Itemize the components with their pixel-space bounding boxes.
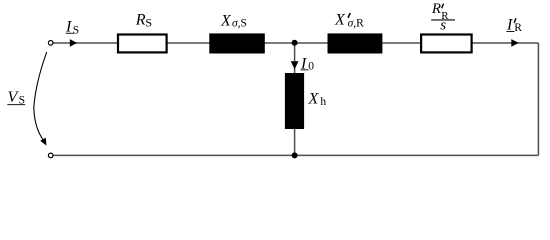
svg-text:R: R	[135, 12, 146, 29]
svg-text:S: S	[73, 25, 79, 37]
svg-text:I: I	[65, 18, 72, 35]
svg-text:σ,R: σ,R	[348, 17, 365, 29]
svg-text:R: R	[514, 22, 522, 34]
svg-text:h: h	[320, 96, 326, 108]
svg-text:I: I	[506, 17, 513, 34]
svg-text:R: R	[431, 1, 441, 17]
svg-text:X: X	[220, 13, 232, 30]
svg-text:0: 0	[308, 61, 314, 73]
svg-text:X: X	[308, 90, 320, 107]
svg-text:S: S	[145, 16, 152, 30]
svg-text:σ,S: σ,S	[232, 17, 247, 29]
svg-text:s: s	[440, 18, 446, 34]
svg-text:X: X	[334, 11, 346, 28]
